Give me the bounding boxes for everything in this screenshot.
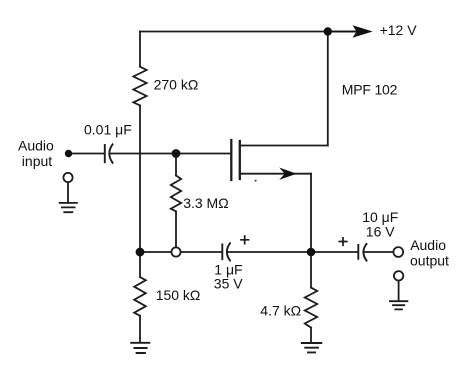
wire: source node to 10uF capacitor	[315, 251, 358, 253]
junction dot: audio input terminal	[65, 150, 72, 157]
junction dot: gate node	[172, 149, 181, 158]
wire: 4.7k lower lead to ground	[310, 328, 312, 343]
wire: 4.7k branch upper lead	[310, 252, 312, 288]
wire: input jack sleeve stem to ground	[67, 182, 69, 203]
wire: 10uF capacitor to audio output terminal	[364, 251, 393, 253]
wire: 3.3M branch lower lead to divider tap circle	[175, 211, 177, 247]
svg-text:150 kΩ: 150 kΩ	[156, 287, 201, 303]
wire: divider vertical from 270k down to bottom node (crosses gate wire)	[139, 105, 141, 252]
ground symbol below 150k	[131, 343, 149, 353]
wire: 3.3M branch upper lead	[175, 154, 177, 176]
svg-text:input: input	[22, 153, 52, 169]
ground symbol at audio output	[390, 301, 408, 309]
wire: audio input to 0.01uF capacitor	[72, 153, 104, 155]
arrow to +12 V supply	[353, 25, 373, 37]
svg-text:270 kΩ: 270 kΩ	[154, 76, 199, 92]
open terminal circle: audio output	[393, 247, 403, 257]
capacitor C 1uF curved plate	[227, 243, 230, 260]
arrow on JFET source lead	[279, 168, 296, 180]
wire: 0.01uF capacitor to JFET gate	[110, 153, 230, 155]
svg-text:Audio: Audio	[18, 137, 54, 153]
wire: JFET source lead horizontal	[240, 173, 311, 175]
capacitor C 0.01uF straight plate	[104, 145, 106, 162]
node circle: divider tap (3.3M to bottom net)	[171, 247, 180, 256]
capacitor C 10uF curved plate	[363, 244, 366, 261]
junction dot: top rail / drain	[324, 27, 332, 35]
svg-text:4.7 kΩ: 4.7 kΩ	[260, 302, 301, 318]
ground symbol at audio input	[60, 203, 77, 212]
svg-text:output: output	[410, 253, 449, 269]
svg-text:Audio: Audio	[410, 237, 446, 253]
svg-text:0.01 μF: 0.01 μF	[84, 122, 132, 138]
wire: JFET source vertical down to output node	[310, 174, 312, 252]
resistor 4.7 kΩ	[305, 288, 317, 328]
resistor 150 kΩ	[134, 277, 146, 316]
plus sign of 1uF capacitor	[241, 236, 249, 244]
wire: +12V top rail	[140, 31, 357, 33]
speck near JFET source	[255, 180, 257, 182]
junction dot: bottom left node (270k/150k/1uF)	[136, 248, 145, 257]
capacitor C 0.01uF curved plate	[109, 144, 112, 163]
wire: drain vertical from top rail down to JFET drain	[327, 32, 329, 146]
open terminal circle: input jack sleeve	[63, 173, 72, 182]
svg-text:35 V: 35 V	[214, 275, 243, 291]
transistor Q MPF102 channel bar	[239, 141, 241, 179]
wire: drain horizontal to JFET channel	[240, 145, 328, 147]
capacitor C 1uF straight plate	[221, 244, 223, 259]
wire: output jack sleeve stem to ground	[398, 281, 400, 301]
capacitor C 10uF straight plate	[357, 245, 359, 259]
wire: 150k lower lead to ground	[139, 316, 141, 343]
wire: arrow shaft +12V	[332, 31, 356, 33]
wire: bottom net, node to divider tap circle	[140, 251, 171, 253]
ground symbol below 4.7k	[302, 343, 322, 352]
svg-text:+12 V: +12 V	[380, 22, 418, 38]
svg-text:3.3 MΩ: 3.3 MΩ	[183, 195, 228, 211]
resistor 3.3 MΩ	[171, 176, 181, 212]
svg-text:MPF 102: MPF 102	[342, 82, 398, 98]
resistor 270 kΩ	[133, 67, 146, 106]
open terminal circle: output jack sleeve	[394, 271, 403, 280]
transistor Q MPF102 gate bar	[230, 140, 232, 180]
wire: divider tap circle to 1uF capacitor	[181, 251, 222, 253]
wire: 150k branch upper lead	[139, 252, 141, 277]
wire: left divider vertical top segment (rail to 270k)	[139, 32, 141, 67]
plus sign of 10uF capacitor	[339, 238, 347, 246]
junction dot: source output node	[307, 248, 316, 257]
wire: 1uF capacitor to source node	[228, 251, 311, 253]
svg-text:16 V: 16 V	[366, 223, 395, 239]
